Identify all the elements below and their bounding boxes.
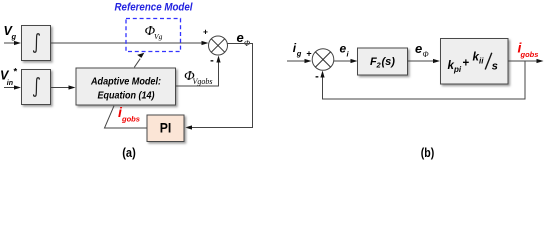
wire summing junction to PI [185,44,253,130]
svg-text:e: e [340,42,347,56]
svg-text:-: - [315,71,319,83]
svg-text:-: - [210,55,214,67]
integrator block 2 [22,70,51,105]
svg-text:e: e [237,30,244,45]
PI gain block (kpi + kii/s) [441,39,509,85]
wire F2 to PI gain block [408,59,441,63]
label ig [293,41,302,58]
wire Vin input [4,85,21,89]
feedback wire [320,61,525,99]
label PhiVg [145,24,163,41]
minus sign S2 [315,71,319,83]
svg-text:Vgobs: Vgobs [193,77,213,86]
wire adaptive model to summing junction (PhiVgobs) [176,56,221,87]
svg-text:Φ: Φ [423,50,429,59]
svg-text:in: in [7,80,13,87]
svg-text:Equation (14): Equation (14) [98,91,156,102]
label igobs (a) [118,104,140,124]
summing junction S2 [312,49,334,71]
label igobs (b) [518,40,539,59]
svg-text:g: g [296,49,302,58]
label ePhi (b) [415,41,429,59]
plus sign S2 [306,48,311,58]
adaptive model block [76,68,176,105]
wire integrator1 to summing junction [51,41,209,45]
svg-text:gobs: gobs [121,115,140,124]
svg-text:pi: pi [453,65,462,74]
caption (b) [421,145,435,160]
svg-text:Adaptive Model:: Adaptive Model: [90,77,161,88]
integrator block 1 [22,26,51,61]
summing junction S1 [209,36,228,55]
wire ig to summing junction [287,59,312,63]
wire PI to adaptive model (igobs) [105,106,148,128]
wire Vg input [4,41,21,45]
PI block [147,115,184,142]
label ei [340,42,350,59]
label PhiVgobs [184,69,213,86]
wire integrator2 to adaptive model [51,85,76,89]
svg-text:(a): (a) [122,145,136,160]
minus sign S1 [210,55,214,67]
label ePhi (a) [237,30,251,48]
svg-text:+: + [306,48,311,58]
svg-text:e: e [415,41,422,56]
svg-text:+: + [203,26,208,36]
wire adaptive model to reference model [134,53,144,68]
svg-text:+: + [463,58,470,70]
label Vg [4,24,17,41]
svg-text:g: g [11,32,17,41]
svg-text:PI: PI [160,119,172,135]
plus sign S1 [203,26,208,36]
svg-text:(s): (s) [382,56,396,68]
label Vin* [0,67,18,88]
svg-text:s: s [492,60,498,72]
F2(s) block [358,48,408,75]
svg-text:ii: ii [479,57,484,66]
caption (a) [122,145,136,160]
svg-text:*: * [14,67,18,78]
svg-text:Vg: Vg [154,32,163,41]
reference model dashed box [126,19,181,52]
label Reference Model [115,2,194,14]
svg-text:Reference Model: Reference Model [115,2,194,14]
wire summing junction to F2 [334,59,358,63]
wire PI gain block to output [509,59,544,63]
svg-text:(b): (b) [421,145,435,160]
svg-text:gobs: gobs [520,50,539,59]
svg-text:i: i [347,49,350,58]
